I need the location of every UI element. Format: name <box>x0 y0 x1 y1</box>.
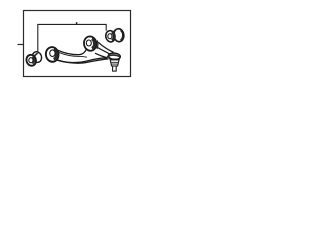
cylinder wall shading top wedge <box>113 28 118 32</box>
frame tick <box>18 44 24 46</box>
ring inner shade crescent <box>112 32 114 40</box>
front ring <box>105 30 116 43</box>
bushing B (top right, loose) <box>105 28 125 43</box>
arm body beam <box>56 46 111 63</box>
front ring <box>25 54 37 67</box>
back sliver <box>97 41 98 49</box>
wall shading top wedge <box>33 53 39 59</box>
frame border <box>24 11 131 77</box>
callout leader wire <box>38 24 106 53</box>
back rim inner edge <box>120 31 122 40</box>
beam lower flange line <box>54 59 109 64</box>
arm strut from rear eye to ball joint <box>95 42 114 58</box>
arm rear eye (middle) <box>83 35 98 51</box>
ring inner shade crescent <box>32 57 34 64</box>
arm front eye <box>45 46 60 62</box>
ring inner shade crescent <box>92 39 95 48</box>
bushing A (bottom left, loose) <box>25 51 43 67</box>
front hole <box>108 34 112 39</box>
ball joint body with bands <box>110 59 119 66</box>
ring inner shade crescent <box>54 50 57 60</box>
beam accent line <box>58 52 87 57</box>
ball joint stud <box>113 66 117 71</box>
ball joint flange <box>108 53 121 60</box>
front hole <box>29 58 33 63</box>
back rim <box>31 51 43 64</box>
callout stub on leader <box>76 22 78 24</box>
back rim <box>113 28 125 42</box>
double bottom edge <box>48 59 58 61</box>
